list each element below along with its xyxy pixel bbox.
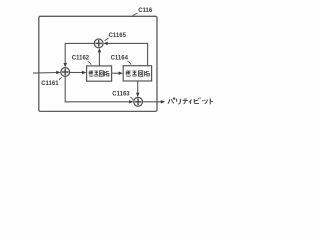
svg-text:C1162: C1162 bbox=[72, 56, 90, 62]
svg-text:C1164: C1164 bbox=[111, 56, 129, 62]
svg-text:C116: C116 bbox=[138, 8, 153, 14]
svg-text:C1161: C1161 bbox=[41, 81, 59, 87]
svg-text:C1165: C1165 bbox=[109, 33, 127, 39]
svg-text:C1163: C1163 bbox=[112, 92, 130, 98]
